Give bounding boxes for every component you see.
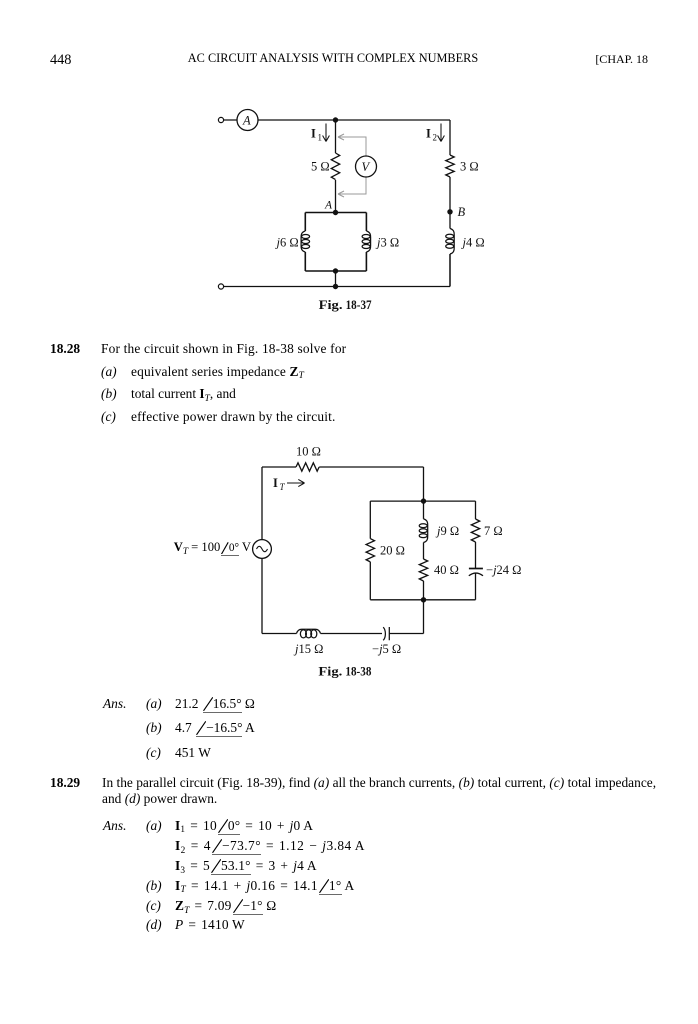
svg-text:j6 Ω: j6 Ω xyxy=(275,236,299,250)
svg-text:20 Ω: 20 Ω xyxy=(380,544,405,558)
svg-text:10 Ω: 10 Ω xyxy=(296,445,321,459)
svg-text:j4 Ω: j4 Ω xyxy=(461,236,485,250)
svg-text:j9 Ω: j9 Ω xyxy=(435,524,459,538)
svg-text:7 Ω: 7 Ω xyxy=(484,524,503,538)
svg-text:Fig.18-37: Fig.18-37 xyxy=(319,298,373,312)
svg-text:−j5 Ω: −j5 Ω xyxy=(372,642,401,656)
svg-text:T: T xyxy=(280,482,286,492)
svg-text:B: B xyxy=(458,205,466,219)
svg-text:−j24 Ω: −j24 Ω xyxy=(486,563,521,577)
svg-text:I: I xyxy=(273,476,278,490)
svg-text:I: I xyxy=(426,127,431,141)
svg-text:5 Ω: 5 Ω xyxy=(311,160,330,174)
svg-text:2: 2 xyxy=(433,133,438,143)
svg-text:I: I xyxy=(311,127,316,141)
svg-text:A: A xyxy=(324,200,333,212)
svg-text:3 Ω: 3 Ω xyxy=(460,160,479,174)
svg-text:Fig.18-38: Fig.18-38 xyxy=(318,665,371,679)
svg-text:1: 1 xyxy=(318,133,323,143)
svg-text:40 Ω: 40 Ω xyxy=(434,563,459,577)
svg-text:j3 Ω: j3 Ω xyxy=(375,236,399,250)
svg-text:V: V xyxy=(362,160,371,174)
svg-text:j15 Ω: j15 Ω xyxy=(293,642,323,656)
svg-text:A: A xyxy=(242,114,251,128)
